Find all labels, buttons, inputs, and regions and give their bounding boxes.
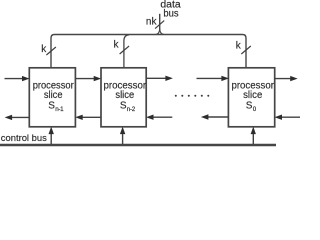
arrow out of S_n-2 right top — [146, 77, 167, 79]
wire drop from data bus to slice S_n-2 — [124, 35, 129, 68]
arrow into S_n-2 right bottom — [153, 116, 173, 118]
control bus riser arrow to S_n-2 — [122, 133, 124, 144]
arrow out of S_0 right top — [275, 78, 292, 80]
processor slice S_n-2 box — [101, 68, 146, 127]
S_n-1 box text — [33, 81, 75, 113]
S_n-2 box text — [104, 81, 147, 113]
arrow out of S_n-1 left bottom — [11, 116, 29, 118]
data bus horizontal wire with corner drops to slice S_n-1 and S_0 — [51, 35, 246, 68]
arrow S_n-1 to S_n-2 top — [75, 78, 94, 80]
data bus stem wire — [159, 14, 161, 31]
S_0 box text — [231, 81, 274, 113]
processor slice S_0 box — [228, 68, 274, 127]
arrow S_n-2 to S_n-1 bottom — [82, 116, 101, 118]
fillet left of data bus stem — [156, 29, 160, 35]
processor slice S_n-1 box — [29, 68, 75, 127]
svg-text:bus: bus — [163, 8, 178, 19]
control bus wire — [0, 144, 276, 146]
ellipsis dots between S_n-2 and S_0 — [175, 95, 210, 97]
control bus riser arrow to S_0 — [252, 133, 254, 144]
svg-text:n-1: n-1 — [55, 106, 64, 113]
slash on k wire of S_0 — [241, 46, 251, 54]
svg-text:control bus: control bus — [1, 133, 47, 144]
slash on k wire of S_n-1 — [46, 47, 56, 55]
arrow into S_n-1 left top — [5, 78, 23, 80]
svg-text:n-2: n-2 — [127, 106, 136, 113]
slash on nk stem — [155, 21, 164, 29]
svg-text:0: 0 — [253, 106, 257, 113]
slash on k wire of S_n-2 — [120, 46, 130, 54]
control bus riser arrow to S_n-1 — [50, 133, 52, 144]
arrow out of S_0 left bottom — [208, 116, 229, 118]
arrow into S_0 right bottom — [281, 116, 300, 118]
fillet right of data bus stem — [160, 29, 164, 35]
svg-text:nk: nk — [146, 16, 158, 27]
arrow into S_0 left top — [197, 77, 223, 79]
